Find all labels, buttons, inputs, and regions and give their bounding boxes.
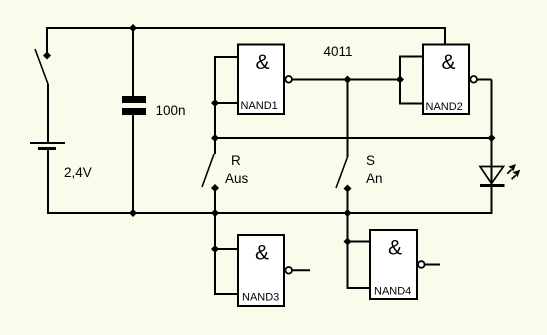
wire NAND4 bottom input (347, 287, 371, 289)
svg-text:An: An (366, 171, 383, 186)
wire left drop from rail to switch (46, 27, 48, 56)
node NAND4 input junction (344, 238, 352, 246)
svg-text:&: & (388, 237, 402, 260)
svg-text:NAND4: NAND4 (374, 286, 411, 298)
svg-text:NAND3: NAND3 (242, 292, 279, 304)
wire S branch vertical (347, 80, 349, 158)
capacitor C1 top plate (122, 96, 146, 103)
svg-text:100n: 100n (156, 103, 186, 118)
wire NAND2 input bus vertical (399, 57, 401, 104)
wire NAND2 top input (399, 56, 423, 58)
wire supply drop to NAND2 top (444, 27, 446, 45)
op-amp bubble NAND1 output inverter circle (285, 76, 292, 83)
op: NAND4 gate body (370, 230, 417, 299)
svg-text:&: & (256, 51, 270, 74)
wire NAND3 bottom input (214, 293, 238, 295)
wire NAND1 input bus vertical (214, 57, 216, 154)
battery B1 short plate (38, 147, 56, 150)
op: NAND1 gate body (238, 45, 284, 115)
switch S0 (battery switch) blade (35, 49, 48, 84)
node switch R lower contact (211, 184, 219, 192)
svg-text:2,4V: 2,4V (64, 165, 92, 180)
svg-text:NAND1: NAND1 (241, 100, 278, 112)
wire NAND1 output to NAND2 input bus (292, 79, 400, 81)
LED D1 triangle (480, 167, 504, 184)
node switch top contact (43, 52, 51, 60)
wire NAND2 bottom input (399, 103, 423, 105)
wire NAND4 output stub (425, 264, 440, 266)
wire R lower contact down through rail to NAND3 inputs (214, 188, 216, 294)
node bottom rail / R branch (211, 209, 219, 217)
wire NAND3 output stub (292, 269, 310, 271)
wire bottom ground rail (47, 212, 492, 214)
wire NAND1 bottom input (214, 102, 238, 104)
LED D1 cathode bar (480, 184, 505, 187)
node NAND2 input bus junction (396, 76, 404, 84)
wire NAND4 top input (347, 241, 371, 243)
bubble NAND3 output inverter circle (285, 267, 292, 274)
bubble NAND4 output inverter circle (418, 261, 425, 268)
node feedback / LED branch (488, 134, 496, 142)
LED light arrow 1 (507, 164, 516, 174)
op: NAND2 gate body (423, 45, 469, 115)
svg-text:NAND2: NAND2 (426, 101, 463, 113)
node switch S lower contact (344, 185, 352, 193)
wire LED branch vertical (491, 80, 493, 215)
svg-text:S: S (366, 153, 375, 168)
wire NAND2 output to LED branch (477, 79, 492, 81)
svg-text:4011: 4011 (324, 44, 353, 59)
svg-text:&: & (255, 242, 269, 265)
capacitor C1 bottom plate (122, 108, 146, 115)
svg-text:&: & (442, 51, 456, 74)
wire capacitor top lead (132, 28, 134, 96)
node top rail / capacitor (129, 24, 137, 32)
wire battery to bottom rail (47, 149, 49, 215)
battery B1 long plate (30, 142, 65, 144)
node NAND1 input junction (211, 99, 219, 107)
wire NAND3 top input (214, 248, 238, 250)
svg-text:R: R (231, 153, 241, 168)
wire top supply rail (47, 27, 445, 29)
wire S lower contact down through rail to NAND4 inputs (347, 189, 349, 289)
switch R blade (202, 154, 214, 187)
switch S blade (336, 157, 348, 188)
wire switch to battery (47, 84, 49, 143)
node bottom rail / capacitor (129, 209, 137, 217)
node feedback / R branch (211, 134, 219, 142)
wire feedback line Q2 to NAND1 inputs (215, 137, 492, 139)
node bottom rail / S branch (344, 209, 352, 217)
LED light arrow 2 (512, 170, 521, 180)
wire capacitor bottom lead (132, 115, 134, 213)
wire NAND1 top input (214, 56, 238, 58)
svg-text:Aus: Aus (225, 171, 249, 186)
node NAND3 input junction (211, 245, 219, 253)
node S branch tap (344, 76, 352, 84)
op: NAND3 gate body (238, 235, 284, 306)
bubble NAND2 output inverter circle (470, 76, 477, 83)
